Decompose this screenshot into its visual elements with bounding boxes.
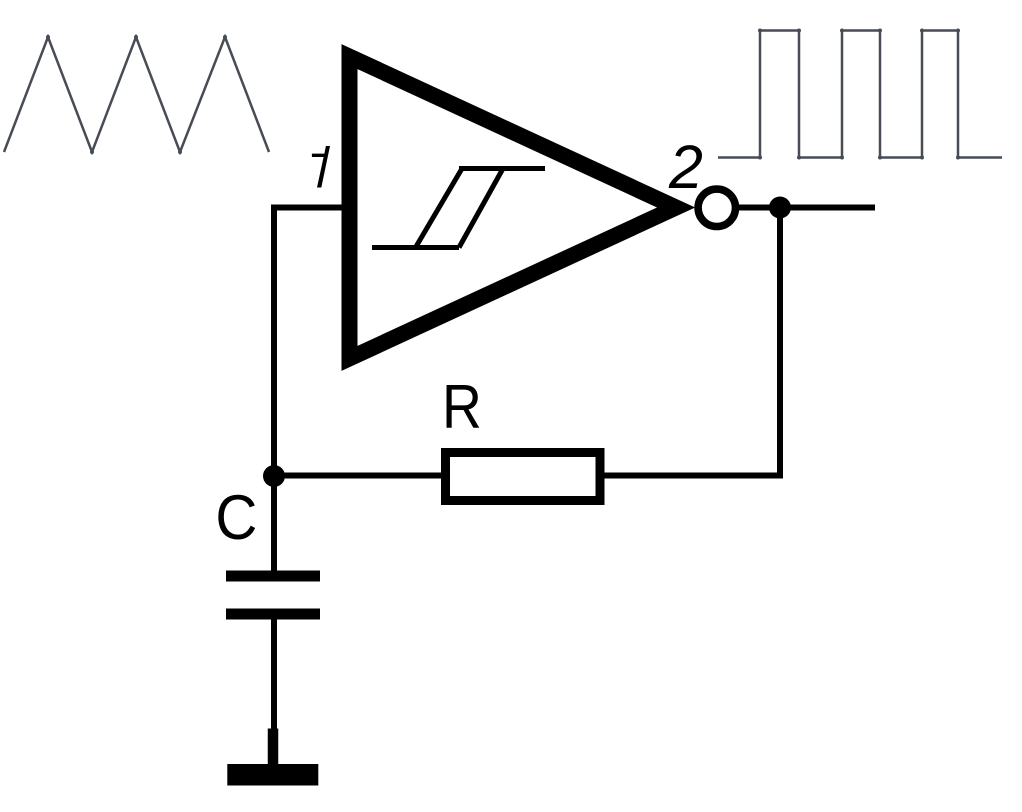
square wave (output waveform)	[718, 31, 1002, 158]
wire junction A to resistor left	[274, 473, 445, 479]
ground bar	[227, 764, 318, 786]
capacitor C top plate	[226, 571, 320, 582]
wire resistor right to vertical	[605, 473, 784, 479]
inverter output bubble	[698, 189, 735, 226]
svg-text:2: 2	[668, 133, 703, 201]
wire input node 1 to junction A	[274, 208, 342, 574]
triangle wave peak dots	[46, 35, 227, 154]
svg-text:R: R	[442, 373, 482, 442]
resistor R	[446, 453, 601, 501]
svg-text:C: C	[215, 482, 257, 553]
feedback wire right vertical	[777, 208, 783, 476]
wire capacitor to ground	[271, 619, 277, 731]
hysteresis symbol right slant	[459, 169, 503, 248]
node A junction dot	[263, 465, 285, 487]
pin 1 label	[312, 146, 330, 188]
output wire from bubble	[739, 205, 875, 211]
square wave corner dots	[758, 29, 960, 160]
hysteresis symbol lower threshold line	[372, 245, 459, 250]
ground stub	[268, 729, 279, 765]
triangle wave (input waveform)	[4, 37, 269, 152]
capacitor C bottom plate	[226, 609, 320, 620]
hysteresis symbol upper threshold line	[459, 166, 545, 171]
node B junction dot (output)	[769, 197, 791, 219]
hysteresis symbol left slant	[416, 169, 463, 248]
op-amp U1 (Schmitt-trigger inverter triangle)	[350, 57, 677, 359]
